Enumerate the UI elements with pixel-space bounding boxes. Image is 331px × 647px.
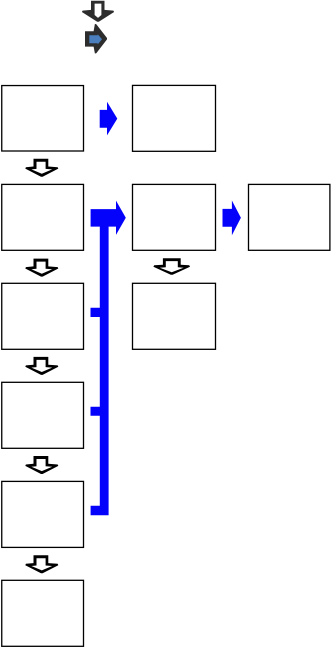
icon: nested right arrow (dark outline, steel-blue fill): [85, 24, 107, 54]
down arrow A5: [25, 555, 58, 573]
down arrow AM (middle column): [153, 258, 190, 275]
box L5: [2, 481, 84, 547]
box M1: [133, 85, 216, 151]
down arrow A3: [25, 357, 58, 375]
box L1: [2, 86, 84, 151]
box M2: [133, 184, 216, 250]
down arrow A2: [25, 259, 58, 277]
down arrow A1: [25, 159, 58, 177]
box R1: [249, 184, 330, 250]
blue arrow B2: [223, 201, 241, 236]
box L4: [2, 382, 84, 448]
box L6: [2, 580, 84, 646]
blue arrow B1: [100, 102, 118, 136]
down arrow A4: [25, 456, 58, 474]
box L3: [2, 283, 84, 349]
box L2: [2, 184, 84, 250]
icon: nested down arrow (dark outline, white fill): [82, 1, 114, 22]
blue elbow connector: [91, 201, 126, 516]
box M3: [133, 283, 216, 349]
